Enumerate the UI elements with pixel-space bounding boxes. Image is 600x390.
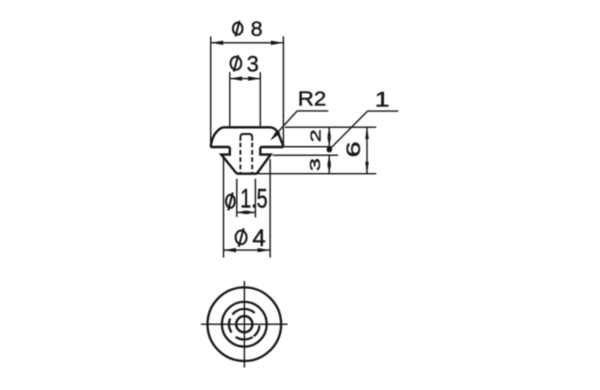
phi4 arrow right [258, 248, 271, 252]
grommet head outline [211, 127, 284, 173]
bottom view broken circle arc left [229, 319, 231, 333]
dimension 2 arrow down [327, 137, 331, 147]
dimension 2 line [328, 127, 330, 147]
dimension 3 line [328, 155, 330, 174]
bottom view broken circle arc bottom [236, 337, 253, 340]
phi1.5 arrow right [246, 211, 255, 215]
svg-text:2: 2 [308, 129, 325, 142]
dimension phi4 line [224, 249, 271, 251]
phi3 symbol slash [234, 55, 239, 71]
phi4 arrow left [224, 248, 237, 252]
phi8 symbol slash [236, 21, 240, 37]
extension line bottom level [258, 173, 377, 175]
svg-text:1.5: 1.5 [240, 184, 267, 214]
bottom view outer circle [208, 287, 282, 361]
hidden hole dashed line left [239, 143, 241, 174]
phi1.5 extension line right [254, 179, 256, 218]
phi1.5 extension line left [236, 179, 238, 217]
phi4 symbol slash [239, 228, 244, 246]
bottom view middle circle [222, 302, 267, 347]
svg-text:4: 4 [252, 225, 265, 252]
slot recess solid outline [240, 134, 252, 141]
R2 leader arrowhead [270, 130, 280, 141]
dimension phi3 symbol ellipse [231, 57, 242, 70]
phi3 arrow right [248, 76, 260, 80]
dimension 2 arrow up [327, 127, 331, 137]
phi1.5 arrow left [237, 211, 246, 215]
dimension 6 arrow down [365, 162, 369, 174]
dimension phi1.5 line [237, 211, 256, 213]
svg-text:6: 6 [343, 141, 365, 157]
bottom view horizontal centerline [201, 323, 288, 325]
phi8 extension line left [210, 36, 212, 146]
svg-text:1: 1 [375, 88, 390, 112]
dimension 3 arrow down [327, 165, 331, 174]
grommet lower body outline [221, 147, 270, 174]
label 1 leader dot [327, 147, 333, 153]
svg-text:3: 3 [247, 51, 259, 76]
extension line barb level [273, 154, 338, 156]
phi3 extension line left [229, 72, 231, 126]
dimension 6 arrow up [365, 127, 369, 139]
svg-text:R2: R2 [298, 89, 327, 111]
svg-text:3: 3 [307, 158, 324, 171]
phi4 extension line right [269, 159, 271, 258]
phi3 extension line right [259, 72, 261, 126]
extension line head-bottom level [284, 146, 332, 148]
label 1 underline [368, 110, 399, 112]
bottom view broken circle arc top [232, 309, 254, 315]
label 1 leader [329, 111, 367, 150]
head bottom right segment [260, 146, 283, 148]
dimension phi8 line [211, 42, 284, 44]
extension line head-top level [285, 126, 376, 128]
label R2 underline [297, 110, 328, 112]
dimension phi8 symbol ellipse [233, 23, 243, 35]
bottom view vertical centerline [243, 281, 245, 368]
phi8 extension line right [282, 36, 284, 146]
hidden hole dashed line right [251, 143, 253, 174]
dimension 3 arrow up [327, 155, 331, 164]
phi8 arrow right [271, 41, 284, 45]
bottom view broken circle arc right [254, 326, 260, 337]
dimension phi4 symbol ellipse [236, 231, 247, 245]
svg-text:8: 8 [251, 17, 263, 41]
phi8 arrow left [211, 41, 224, 45]
phi3 arrow left [230, 76, 242, 80]
phi1.5 symbol slash [228, 193, 232, 211]
dimension phi1.5 symbol ellipse [226, 195, 235, 208]
dimension 6 line [366, 127, 368, 174]
bottom view inner circle [236, 316, 252, 332]
dimension phi3 line [230, 78, 260, 80]
phi4 extension line left [223, 158, 225, 258]
label R2 leader [272, 111, 297, 139]
head bottom left segment [211, 146, 230, 148]
